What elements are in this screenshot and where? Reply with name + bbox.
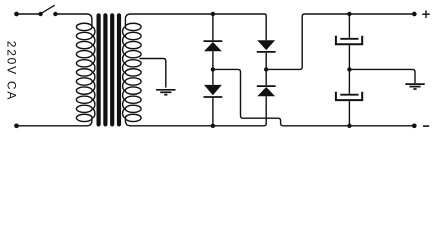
node M1 (DC minus) (211, 67, 215, 71)
svg-text:220V CA: 220V CA (5, 41, 19, 101)
node: AC bottom / D2 junction (211, 124, 215, 128)
wire node M2 up to positive rail (266, 14, 414, 69)
ground (output common) (405, 84, 424, 89)
wire mid node down to C2 (348, 69, 350, 93)
terminal + output (412, 12, 417, 17)
node M2 (DC plus) (264, 67, 268, 71)
diode D1 cathode bar (204, 40, 223, 42)
diode D4 (points up) (257, 87, 275, 96)
wire D1 anode to node M1 (212, 51, 214, 85)
wire D2 cathode to AC bottom (212, 98, 214, 126)
diode D3 cathode bar (257, 51, 276, 53)
wire secondary center tap (140, 59, 166, 88)
wire secondary bottom to bridge (AC bottom net), corner up into D4 (125, 96, 266, 126)
wire node M1 to negative rail (steps down, crosses D4 lead) (213, 69, 414, 125)
switch S1 right contact (53, 12, 57, 16)
node: positive rail / C1 junction (347, 12, 351, 16)
wire switch to transformer primary top (55, 14, 92, 27)
wire C2 to negative rail (348, 101, 350, 126)
wire D3 cathode to node M2 and on to D4 (265, 53, 267, 85)
label + (422, 10, 430, 18)
transformer T1 secondary winding (123, 23, 141, 121)
terminal bottom-left (220V CA line) (14, 123, 19, 128)
diode D1 (points up) (204, 42, 222, 51)
diode D3 (points down) (257, 40, 275, 50)
terminal - output (412, 123, 417, 128)
capacitor C2 negative plate (cup) (336, 92, 362, 100)
diode D4 cathode bar (257, 85, 276, 87)
label - (423, 125, 429, 127)
capacitor C2 positive plate (340, 94, 358, 96)
wire top-left terminal to switch (17, 13, 41, 15)
terminal top-left (220V CA line) (14, 12, 19, 17)
node: mid point between capacitors (347, 67, 351, 71)
diode D2 (points down) (204, 85, 222, 95)
transformer T1 core (99, 15, 119, 124)
capacitor C1 negative plate (cup) (336, 36, 362, 44)
ground (center tap) (156, 90, 175, 95)
wire positive rail down to C1 (348, 14, 350, 38)
switch S1 left contact (38, 12, 42, 16)
wire secondary top to bridge (AC top net), corner into D3 (125, 14, 266, 40)
diode D2 cathode bar (204, 96, 223, 98)
wire mid node to right ground (349, 69, 415, 83)
wire bottom-left terminal to transformer primary bottom (17, 118, 92, 126)
transformer T1 primary winding (76, 23, 95, 121)
node: AC top / D1 branch junction (211, 12, 215, 16)
node: negative rail / C2 junction (347, 124, 351, 128)
wire C1 to mid node (348, 45, 350, 69)
switch S1 blade (41, 5, 54, 13)
diode D1 branch lead from AC top (212, 14, 214, 40)
capacitor C1 positive plate (340, 38, 358, 40)
